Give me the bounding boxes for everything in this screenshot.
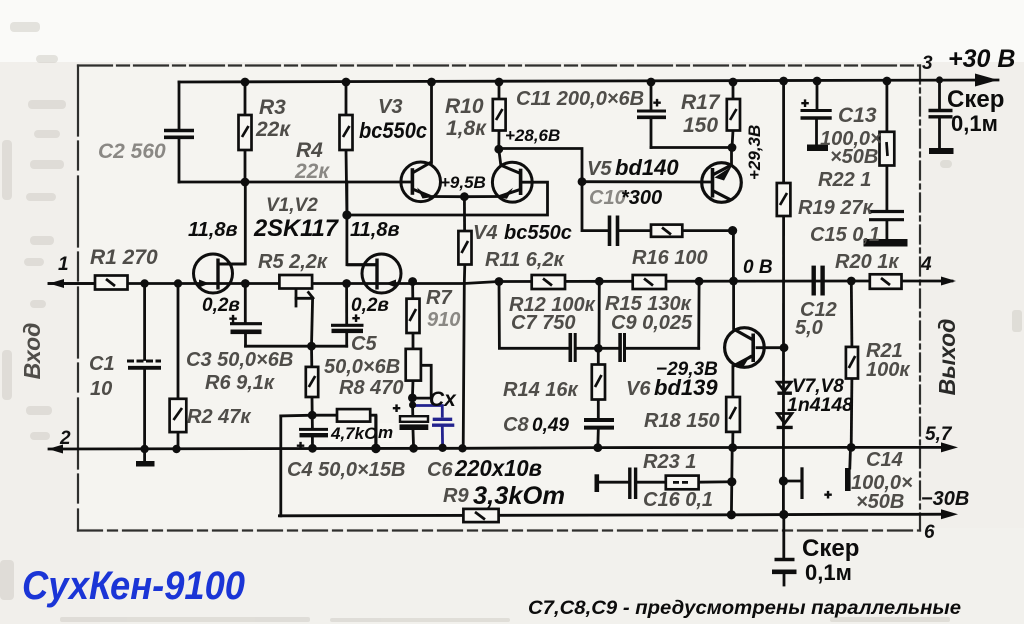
svg-text:R7: R7 (426, 287, 452, 309)
resistor R4 (340, 115, 353, 150)
resistor R9 (463, 509, 498, 522)
svg-text:R8 470: R8 470 (339, 377, 404, 399)
wire C7 right to R14 node (577, 347, 599, 350)
terminal arrow output 4 (941, 277, 956, 286)
capacitor C14 (802, 467, 851, 502)
svg-text:R14 16к: R14 16к (503, 379, 578, 401)
svg-text:22к: 22к (294, 160, 330, 183)
svg-text:R10: R10 (445, 95, 484, 118)
svg-text:10: 10 (90, 378, 112, 400)
wire C6 leads (411, 398, 414, 416)
svg-text:−30В: −30В (921, 488, 969, 510)
svg-text:R17: R17 (681, 91, 721, 114)
wire -30V bottom bus (279, 514, 950, 516)
svg-text:СухКен-9100: СухКен-9100 (22, 564, 245, 608)
wire R21 branch (850, 281, 853, 347)
svg-text:×50В: ×50В (856, 491, 904, 513)
svg-text:C6: C6 (427, 459, 453, 481)
terminal arrow output 5,7 (941, 442, 958, 452)
wire C3/C5 bottom link (y=346) (246, 345, 347, 348)
wire V5 base (582, 180, 711, 183)
border dashed frame (78, 66, 920, 531)
svg-text:R4: R4 (296, 139, 323, 162)
junction node C6/Cx tap (409, 401, 416, 408)
junction node bus1/R7 (408, 277, 417, 286)
transistor V1 (2SK117 JFET) (194, 254, 246, 293)
diode V7 (1n4148) (777, 382, 792, 393)
transistor V3 (bc550c) (401, 162, 441, 202)
terminal arrow input 1 (49, 279, 64, 288)
junction node bus1/C1 (140, 279, 148, 287)
junction node 0V/V6-collector (729, 277, 738, 286)
svg-text:+: + (824, 487, 832, 502)
svg-text:C14: C14 (866, 449, 903, 471)
wire R18 bottom to 5,7 bus (731, 432, 734, 448)
svg-text:C7 750: C7 750 (511, 312, 576, 334)
wire Sker-top cap lead (938, 80, 941, 109)
capacitor C1 (127, 361, 161, 368)
svg-text:R5 2,2к: R5 2,2к (258, 251, 328, 273)
svg-text:C8: C8 (503, 414, 529, 436)
wire R7-R8 link (412, 333, 415, 349)
svg-text:1n4148: 1n4148 (787, 395, 853, 416)
junction node R10/V4-collector (494, 145, 503, 154)
wire C10 right to V5 collector junction (619, 229, 652, 232)
wire V3/V4 emitters to R11 (430, 195, 499, 198)
resistor R12 (532, 275, 565, 289)
resistor R11 (458, 231, 471, 265)
svg-text:С11 200,0×6В: С11 200,0×6В (516, 88, 644, 110)
junction node R8/C6 (408, 394, 417, 403)
svg-text:220x10в: 220x10в (454, 455, 542, 481)
wire C1 branch (143, 284, 146, 360)
wire V4 collector (499, 149, 501, 165)
svg-text:3,3kOm: 3,3kOm (473, 482, 565, 510)
svg-text:bc550c: bc550c (359, 118, 427, 143)
wire C9 row (598, 347, 618, 350)
svg-text:0,2в: 0,2в (202, 295, 240, 316)
svg-text:+30 В: +30 В (948, 45, 1015, 73)
terminal arrow input 2 (48, 445, 63, 454)
svg-text:R9: R9 (443, 485, 469, 507)
wire R2 branch (177, 284, 180, 399)
svg-text:+9,5В: +9,5В (440, 173, 486, 192)
resistor R1 (95, 276, 128, 290)
svg-text:R19 27к: R19 27к (798, 197, 873, 219)
junction node bus2/C6 (409, 444, 418, 453)
wire V6 collector up (732, 281, 735, 329)
resistor R16 (651, 225, 682, 237)
transistor V6 (bd139) (725, 328, 765, 368)
svg-text:R6 9,1к: R6 9,1к (205, 372, 275, 394)
junction node V6-base/diodes (780, 343, 789, 352)
svg-text:V1,V2: V1,V2 (266, 195, 318, 216)
wire C4 branch (311, 415, 314, 428)
wire R19 top lead (782, 81, 785, 183)
capacitor Sker bottom 0,1m (772, 560, 797, 572)
wire R22 leads (886, 81, 889, 132)
wire V1 drain to R3 (218, 182, 245, 264)
junction node C14-row/diode-line (779, 476, 788, 485)
svg-text:V7,V8: V7,V8 (792, 376, 844, 397)
svg-text:C15 0,1: C15 0,1 (810, 224, 880, 246)
junction node bus2/C14-R21 (847, 443, 856, 452)
svg-text:V6: V6 (626, 378, 651, 400)
wire R23 junction vertical (730, 448, 734, 515)
transistor V2 (2SK117 JFET) (347, 254, 401, 293)
svg-text:5,7: 5,7 (925, 424, 953, 445)
svg-text:1: 1 (58, 254, 69, 275)
svg-text:+29,3В: +29,3В (745, 125, 764, 180)
svg-text:C2 560: C2 560 (98, 140, 166, 163)
wire R19/diodes vertical (782, 216, 785, 515)
resistor R21 (846, 347, 858, 379)
wire C8 bottom lead (596, 430, 599, 448)
junction node bus2/R11 (458, 444, 466, 452)
wire C13 leads (816, 81, 819, 109)
svg-text:11,8в: 11,8в (350, 219, 400, 241)
junction node C3-C5/R5-wiper/R6 (307, 342, 316, 351)
junction node R12/R15 (595, 277, 604, 286)
junction node -30V/Sker-cap (779, 510, 788, 519)
svg-text:910: 910 (427, 309, 460, 331)
svg-text:C16 0,1: C16 0,1 (643, 489, 713, 511)
wire R4 leads (345, 82, 348, 115)
junction node rail/Sker-cap (936, 76, 943, 83)
junction node V2-drain/V4-base wire (342, 210, 351, 219)
resistor R15 (633, 275, 666, 289)
svg-text:0,2в: 0,2в (351, 295, 389, 316)
capacitor C6 (393, 401, 429, 431)
svg-text:R18 150: R18 150 (644, 410, 720, 432)
svg-text:+: + (801, 96, 809, 111)
junction node V5-collector/R16 (728, 226, 737, 235)
junction node rail/C11 (647, 78, 656, 87)
svg-text:150: 150 (683, 114, 718, 137)
capacitor C15 (864, 212, 907, 247)
svg-text:22к: 22к (255, 118, 291, 141)
resistor R6 (306, 367, 318, 397)
junction node R15/C9-loop (695, 277, 704, 286)
svg-text:m: m (378, 423, 393, 442)
junction node C12/R20/R21 (847, 277, 856, 286)
terminal arrow -30V (941, 509, 958, 519)
junction node rail/V3-collector (427, 78, 436, 87)
junction node V1-source/C3 (241, 279, 250, 288)
wire input-2 / 5,7 feedback bus (49, 447, 950, 449)
wire input-1 / 0V bus (horizontal y=282) (49, 281, 952, 284)
svg-text:R16 100: R16 100 (632, 247, 708, 269)
wire R10 leads (498, 82, 501, 99)
wire R14 leads (597, 348, 600, 364)
resistor R10 (493, 99, 506, 131)
svg-text:C4 50,0×15В: C4 50,0×15В (287, 459, 405, 481)
resistor R23 (666, 476, 699, 490)
wire C2 leads (178, 82, 181, 130)
wire R12/R15 mid node down (598, 281, 601, 348)
svg-text:V3: V3 (378, 96, 402, 118)
svg-text:×50В: ×50В (830, 146, 878, 168)
junction node R3/bias-wire (241, 178, 250, 187)
svg-text:V4: V4 (473, 222, 497, 244)
wire C9 loop right side up (697, 281, 700, 348)
capacitor Cx (blue) (413, 406, 454, 448)
diode V8 (1n4148) (777, 414, 793, 428)
wire R12 left node down-loop (C7 loop) (499, 282, 569, 349)
svg-text:50,0×6В: 50,0×6В (324, 356, 400, 378)
wire V6 base from R19/diode line (757, 346, 784, 349)
resistor R5 trimmer (279, 275, 312, 289)
junction node C7/C9/R14 (594, 344, 603, 353)
svg-text:Вход: Вход (19, 323, 45, 380)
junction node rail/R22 (883, 77, 892, 86)
svg-text:R1 270: R1 270 (90, 246, 158, 269)
wire V6 emitter to R18 (732, 367, 735, 398)
svg-text:Скер: Скер (947, 86, 1004, 113)
resistor R18 (726, 397, 740, 432)
svg-text:V5: V5 (587, 158, 612, 180)
svg-text:C1: C1 (89, 353, 115, 375)
wire C14 row (783, 480, 800, 483)
junction node bus2/C4 (308, 444, 317, 453)
wire C16/R23 row (599, 481, 628, 484)
wire V5 collector down to 0V bus (732, 231, 735, 281)
svg-text:R11 6,2к: R11 6,2к (485, 249, 565, 271)
resistor R3 (239, 115, 252, 150)
svg-text:*300: *300 (621, 187, 662, 209)
resistor R17 (727, 99, 740, 131)
junction node R23/vertical (727, 477, 736, 486)
resistor R22 (880, 132, 895, 166)
junction node rail/R19 (779, 77, 788, 86)
svg-text:Скер: Скер (802, 535, 859, 562)
capacitor C10 (610, 216, 618, 247)
junction node V5-base (578, 177, 587, 186)
capacitor C16 (595, 468, 636, 500)
junction node -30V/R23-line (727, 510, 736, 519)
junction node bus2/C1 (140, 445, 148, 453)
svg-text:R23 1: R23 1 (643, 451, 696, 473)
terminal arrow +30V (975, 74, 998, 87)
svg-text:4,7kO: 4,7kO (330, 424, 377, 443)
svg-text:5,0: 5,0 (795, 317, 823, 339)
wire 4.7k right lead down to bus2 (370, 415, 376, 448)
wire C11/R17 to V5 emitter (y=147.5) (651, 146, 732, 149)
capacitor C5 (331, 311, 364, 334)
svg-text:C3 50,0×6В: C3 50,0×6В (186, 349, 293, 371)
capacitor C2 (164, 131, 194, 138)
transistor V4 (bc550c) (492, 162, 532, 202)
junction node bus2/C8 (593, 443, 602, 452)
junction node V2-source/C5 (342, 279, 351, 288)
svg-text:2SK117: 2SK117 (253, 215, 340, 242)
wire R17 leads (732, 82, 735, 99)
svg-text:С7,С8,С9 - предусмотрены парал: С7,С8,С9 - предусмотрены параллельные (528, 598, 961, 619)
junction node R17/V5-emitter (728, 143, 737, 152)
junction node rail/C13 (813, 77, 822, 86)
wire R11 bottom long vertical (463, 265, 465, 449)
capacitor C9 (620, 333, 624, 362)
wire V3 collector (430, 82, 433, 163)
label 4,7kOm (328, 423, 395, 442)
svg-text:R3: R3 (259, 96, 286, 119)
svg-text:+: + (653, 95, 661, 110)
wire R1 leads (49, 282, 95, 285)
svg-text:R2 47к: R2 47к (187, 406, 251, 428)
svg-text:0 В: 0 В (743, 257, 773, 278)
svg-text:1,8к: 1,8к (446, 117, 487, 140)
svg-text:bc550c: bc550c (504, 222, 572, 244)
svg-text:R22 1: R22 1 (818, 169, 871, 191)
wire +30V top rail (179, 80, 998, 82)
svg-text:C9 0,025: C9 0,025 (611, 312, 693, 334)
resistor R20 (870, 274, 902, 289)
svg-text:C5: C5 (351, 333, 377, 355)
junction node rail/R3 (241, 78, 250, 87)
junction node rail/R4 (342, 78, 351, 87)
capacitor C3 (229, 311, 262, 334)
wire R8 bottom lead (411, 381, 414, 398)
svg-text:+28,6В: +28,6В (505, 126, 560, 145)
resistor R14 (592, 365, 605, 400)
svg-text:100к: 100к (866, 359, 910, 381)
wire C11 leads (650, 82, 653, 110)
capacitor C11 (637, 95, 666, 117)
wire V5 emitter lead (730, 148, 733, 166)
capacitor C12 (814, 266, 823, 296)
svg-text:Сx: Сx (429, 388, 457, 411)
wire R3 leads (244, 82, 247, 115)
wire R7 top lead (411, 282, 414, 299)
svg-text:6: 6 (924, 522, 935, 543)
resistor 4,7kOm (337, 409, 370, 422)
junction node bus1/R2 (174, 279, 182, 287)
capacitor C4 (297, 429, 331, 453)
svg-text:0,1м: 0,1м (951, 111, 998, 136)
svg-text:R20 1к: R20 1к (835, 251, 899, 273)
resistor R19 (777, 183, 791, 216)
junction node rail/R17 (729, 78, 738, 87)
wire C5 branch (345, 284, 348, 326)
wire Sker-bottom cap lead (782, 515, 785, 558)
wire R8 trimmer tap (412, 365, 431, 398)
junction node bus1/R12-C7 (495, 277, 504, 286)
svg-text:−29,3В: −29,3В (656, 359, 718, 380)
wire left branch down to -30V loop (281, 414, 312, 417)
svg-text:0,49: 0,49 (532, 415, 569, 436)
wire C2/R3/R4 bias rail (y=182) (179, 181, 411, 184)
svg-text:2: 2 (59, 428, 71, 449)
junction node bus2/4.7k (371, 444, 381, 454)
svg-text:3: 3 (922, 53, 933, 74)
junction node bus2/Cx (438, 444, 446, 452)
resistor R7 (407, 299, 420, 333)
wire V2 drain to R4/V4-base node (347, 182, 377, 265)
junction node bus2/R18 (728, 443, 737, 452)
svg-text:+: + (297, 438, 305, 453)
capacitor C7 (570, 333, 575, 362)
wire R6 leads (310, 346, 313, 367)
svg-text:0,1м: 0,1м (805, 560, 852, 585)
capacitor C13 (801, 96, 832, 151)
svg-text:C13: C13 (838, 104, 877, 127)
resistor R2 (170, 399, 187, 432)
svg-text:11,8в: 11,8в (188, 219, 238, 241)
wire R6 node to 4.7k resistor (312, 414, 337, 417)
svg-text:Выход: Выход (934, 319, 960, 396)
junction node bus2/R2 (172, 445, 180, 453)
svg-text:4: 4 (920, 254, 932, 275)
junction node V3/V4 emitters (460, 192, 469, 201)
svg-text:+: + (393, 401, 401, 416)
capacitor C8 (584, 420, 614, 428)
wire V4-base run (y=215) (347, 182, 548, 215)
capacitor Sker top 0,1m (929, 111, 954, 154)
svg-text:bd140: bd140 (615, 155, 679, 180)
transistor V5 (bd140 pnp) (702, 163, 742, 203)
resistor R8 trimmer (406, 349, 421, 381)
wire C3 branch (244, 284, 247, 323)
junction node R6/4.7k/C4 (308, 411, 317, 420)
junction node rail/R10 (495, 78, 504, 87)
wire R10 to V5 base (y=148) (499, 149, 582, 182)
wire C10/R16 row (y=230.6) (582, 182, 608, 231)
wire R5 wiper tap (295, 289, 298, 307)
wire C15 lead (886, 222, 889, 241)
chassis bar below C1 (136, 461, 155, 467)
